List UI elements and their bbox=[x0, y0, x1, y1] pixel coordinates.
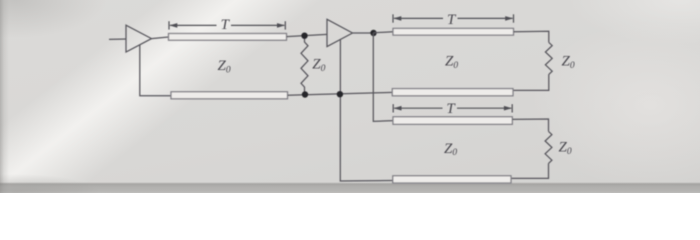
wire node C to TL3 bbox=[374, 32, 394, 33]
node A junction dot bbox=[301, 33, 307, 39]
wire TL3 right to resistor R2 bbox=[514, 31, 549, 42]
transmission line TL2 (bottom-left return) bbox=[171, 92, 288, 99]
node B junction dot bbox=[302, 91, 308, 97]
delay annotation T for TL5 (dimension arrow) bbox=[393, 104, 512, 112]
svg-text:Z0: Z0 bbox=[218, 58, 231, 75]
transmission line TL3 (upper-right top) bbox=[393, 28, 514, 35]
wire U1 output to TL1 bbox=[152, 37, 169, 39]
svg-text:T: T bbox=[447, 12, 457, 28]
wire U2 reference drop through node D to bottom line bbox=[340, 40, 393, 181]
node D junction dot bbox=[337, 91, 343, 97]
wire U2 output to node C bbox=[353, 32, 374, 34]
transmission line TL4 (upper-right bottom) bbox=[392, 89, 513, 96]
wire input stub to driver U1 bbox=[109, 38, 127, 40]
svg-text:Z0: Z0 bbox=[445, 53, 458, 70]
delay annotation T for TL1 (dimension arrow) bbox=[169, 21, 285, 29]
wire TL2 right to node B and on to TL4 bbox=[288, 92, 394, 95]
wire TL1 right to node A bbox=[287, 34, 328, 36]
resistor R3 Z0 (lower-right termination) bbox=[545, 131, 552, 163]
wire TL5 right to resistor R3 bbox=[512, 119, 548, 131]
resistor R2 Z0 (upper-right termination) bbox=[545, 42, 552, 74]
transmission line TL6 (lower-right bottom) bbox=[393, 176, 511, 183]
svg-text:Z0: Z0 bbox=[444, 141, 457, 158]
wire R3 bottom to TL6 right bbox=[511, 163, 549, 178]
svg-text:Z0: Z0 bbox=[559, 139, 572, 156]
wire node C drop to TL5 (crosses return wire, no connection) bbox=[373, 33, 393, 121]
svg-text:Z0: Z0 bbox=[562, 53, 575, 70]
resistor R1 Z0 (termination at node A-B) bbox=[301, 36, 308, 95]
svg-text:Z0: Z0 bbox=[312, 57, 325, 74]
svg-text:T: T bbox=[221, 17, 231, 33]
buffer U2 (second driver triangle) bbox=[327, 19, 353, 46]
wire R2 bottom to TL4 right bbox=[513, 74, 549, 90]
delay annotation T for TL3 (dimension arrow) bbox=[393, 14, 514, 22]
wire U1 reference drop (vertical to bottom return line) bbox=[140, 45, 171, 96]
node C junction dot bbox=[370, 30, 376, 36]
transmission line TL5 (lower-right top) bbox=[393, 117, 512, 125]
buffer U1 (left line driver triangle) bbox=[126, 25, 152, 52]
transmission line TL1 (top-left) bbox=[169, 34, 287, 41]
svg-text:T: T bbox=[446, 101, 456, 117]
